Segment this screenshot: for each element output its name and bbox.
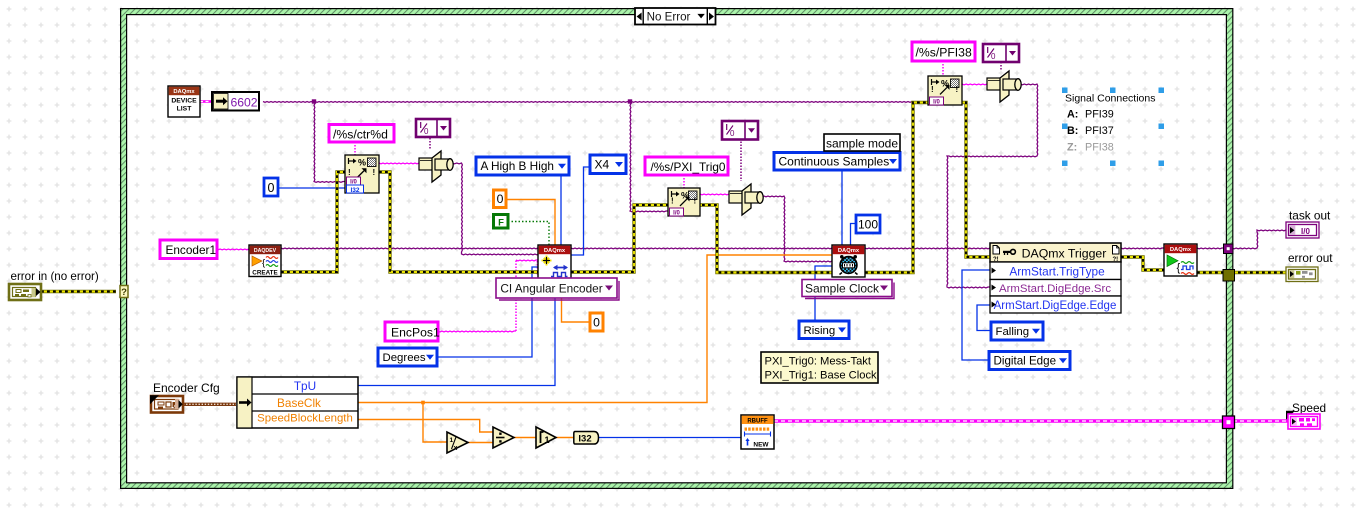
svg-text:I/0: I/0 — [673, 211, 680, 217]
svg-text:DAQmx: DAQmx — [1170, 247, 1192, 253]
svg-text:PFI38: PFI38 — [1085, 142, 1114, 154]
svg-text:I: I — [420, 120, 422, 130]
svg-text:!: ! — [671, 196, 674, 205]
svg-text:Degrees: Degrees — [383, 352, 426, 364]
svg-text:I32: I32 — [350, 187, 359, 194]
svg-text:CI Angular Encoder: CI Angular Encoder — [500, 281, 602, 295]
svg-text:?!: ?! — [1113, 257, 1119, 263]
svg-text:6602: 6602 — [230, 96, 257, 110]
svg-text:%: % — [358, 158, 366, 168]
svg-text:/%s/PXI_Trig0: /%s/PXI_Trig0 — [651, 160, 726, 174]
svg-text:ArmStart.TrigType: ArmStart.TrigType — [1009, 264, 1105, 278]
svg-text:0: 0 — [593, 316, 600, 330]
svg-text:PXI_Trig1: Base Clock: PXI_Trig1: Base Clock — [765, 370, 878, 382]
svg-text:Continuous Samples: Continuous Samples — [779, 154, 890, 168]
svg-text:PFI39: PFI39 — [1085, 109, 1114, 121]
svg-text:A High B High: A High B High — [481, 159, 554, 173]
svg-text:0: 0 — [424, 127, 429, 136]
svg-text:/%s/PFI38: /%s/PFI38 — [916, 46, 972, 60]
svg-text:I: I — [987, 45, 989, 55]
svg-text:task out: task out — [1289, 209, 1331, 223]
svg-text:/%s/ctr%d: /%s/ctr%d — [333, 127, 388, 141]
svg-text:{: { — [1177, 262, 1181, 274]
svg-text:!: ! — [373, 168, 376, 177]
svg-text:0: 0 — [730, 129, 735, 138]
svg-text:Digital Edge: Digital Edge — [994, 355, 1057, 368]
svg-text:?: ? — [121, 287, 127, 298]
svg-text:sample mode: sample mode — [826, 137, 898, 151]
svg-text:BaseClk: BaseClk — [277, 396, 321, 410]
svg-text:X4: X4 — [595, 157, 610, 171]
svg-text:Speed: Speed — [1292, 401, 1326, 415]
svg-text:0: 0 — [268, 181, 275, 195]
svg-text:CREATE: CREATE — [252, 269, 277, 276]
svg-text:NEW: NEW — [753, 442, 769, 449]
svg-text:DAQDEV: DAQDEV — [254, 248, 277, 254]
svg-text:RBUFF: RBUFF — [747, 419, 768, 425]
svg-text:LIST: LIST — [177, 106, 193, 113]
svg-text:I32: I32 — [578, 434, 591, 445]
svg-text:Z:: Z: — [1067, 142, 1077, 154]
svg-text:!: ! — [348, 168, 351, 177]
svg-text:A:: A: — [1067, 109, 1078, 121]
svg-text:error in (no error): error in (no error) — [11, 270, 99, 283]
svg-text:F: F — [498, 217, 504, 228]
svg-text:x: x — [454, 445, 458, 452]
svg-text:PFI37: PFI37 — [1085, 125, 1114, 137]
svg-text:Falling: Falling — [996, 326, 1030, 338]
svg-text:0: 0 — [991, 52, 996, 61]
svg-text:EncPos1: EncPos1 — [391, 326, 440, 340]
svg-text:?!: ?! — [993, 257, 999, 263]
svg-text:error out: error out — [1288, 251, 1333, 265]
svg-text:DAQmx Trigger: DAQmx Trigger — [1022, 246, 1107, 260]
svg-text:0: 0 — [497, 192, 504, 206]
svg-text:I/0: I/0 — [1301, 227, 1310, 236]
svg-text:{: { — [262, 258, 265, 269]
svg-text:!: ! — [694, 196, 697, 205]
svg-text:100: 100 — [858, 218, 878, 232]
svg-text:Rising: Rising — [804, 325, 836, 337]
svg-text:!: ! — [956, 85, 959, 94]
svg-text:DAQmx: DAQmx — [544, 248, 566, 254]
svg-text:!: ! — [931, 85, 934, 94]
svg-text:Encoder1: Encoder1 — [166, 243, 217, 257]
svg-text:PXI_Trig0: Mess-Takt: PXI_Trig0: Mess-Takt — [765, 356, 872, 368]
svg-text:ArmStart.DigEdge.Edge: ArmStart.DigEdge.Edge — [994, 300, 1117, 312]
svg-text:ArmStart.DigEdge.Src: ArmStart.DigEdge.Src — [999, 283, 1111, 295]
svg-text:B:: B: — [1067, 125, 1078, 137]
svg-text:DEVICE: DEVICE — [171, 98, 197, 105]
svg-text:Signal Connections: Signal Connections — [1065, 93, 1155, 105]
svg-text:DAQmx: DAQmx — [838, 248, 860, 254]
svg-text:Sample Clock: Sample Clock — [805, 281, 880, 295]
svg-text:I/0: I/0 — [933, 100, 940, 106]
svg-text:I: I — [726, 122, 728, 132]
svg-text:DAQmx: DAQmx — [173, 89, 195, 95]
svg-text:1: 1 — [450, 437, 454, 444]
svg-text:TpU: TpU — [294, 379, 316, 393]
svg-text:Encoder Cfg: Encoder Cfg — [153, 381, 220, 395]
svg-text:No Error: No Error — [647, 11, 691, 24]
svg-text:SpeedBlockLength: SpeedBlockLength — [257, 412, 353, 424]
svg-text:1: 1 — [544, 435, 549, 445]
